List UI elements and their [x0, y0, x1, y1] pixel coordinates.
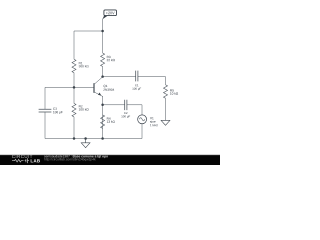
wire emitter row: [103, 104, 125, 106]
capacitor C1: [136, 71, 138, 82]
wire C2 to V1: [127, 105, 142, 115]
label R2 100 kΩ: [79, 105, 83, 107]
wire collector row: [103, 76, 136, 78]
wire C3 top lead: [44, 87, 46, 109]
wire R2 bottom lead: [73, 117, 75, 139]
watermark text url: [44, 158, 95, 161]
node junction dots: [101, 30, 104, 33]
source V1: [138, 115, 147, 124]
watermark bar: [0, 155, 220, 165]
capacitor C2: [125, 100, 127, 110]
wire supply drop to rail: [102, 19, 104, 31]
label C2 100 µF: [124, 112, 127, 114]
transistor Q1 2N3904: [92, 83, 97, 93]
label R4 13 kΩ: [107, 117, 111, 119]
wire R3 bottom lead: [102, 67, 104, 77]
wire V1 bottom lead: [141, 124, 143, 139]
wire ground rail: [45, 138, 142, 140]
label C3 100 µF: [53, 108, 57, 110]
wire R2 top lead: [73, 87, 75, 103]
resistor R3: [101, 53, 105, 67]
resistor R2: [72, 103, 76, 117]
capacitor C3: [39, 109, 52, 112]
wire R1 bottom lead: [73, 73, 75, 88]
label C1 100 µF: [135, 84, 138, 86]
label R3 22 kΩ: [107, 56, 111, 58]
label Q1 2N3904: [103, 85, 107, 88]
wire C1 to R5: [138, 77, 166, 85]
node +20V flag: [102, 10, 116, 19]
wire base row: [45, 86, 94, 88]
CircuitLab logo: [12, 155, 40, 163]
wire top rail: [74, 30, 103, 32]
transistor Q1 emitter arrow: [98, 93, 101, 96]
resistor R1: [72, 59, 76, 72]
wire R1 top lead: [73, 31, 75, 59]
label R1 300 kΩ: [79, 62, 83, 64]
ground (R5 load): [161, 120, 170, 125]
watermark text username / title: [44, 155, 71, 157]
wire emitter down: [102, 96, 104, 139]
wire C3 bottom lead: [44, 112, 46, 138]
label V1 sine 1 kHz: [150, 117, 154, 119]
ground (main): [81, 139, 90, 148]
wire R3 top lead: [102, 31, 104, 53]
wire R5 bottom lead: [165, 98, 167, 120]
resistor R5: [164, 85, 168, 99]
label R5 10 kΩ: [170, 89, 174, 91]
resistor R4: [101, 115, 105, 128]
